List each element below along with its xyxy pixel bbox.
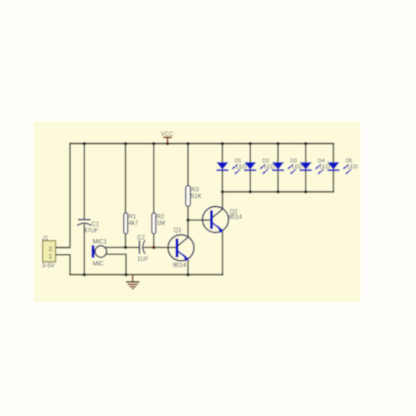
- svg-text:1: 1: [49, 253, 53, 260]
- svg-text:VCC: VCC: [161, 132, 174, 138]
- node D3 cathode: [276, 190, 279, 193]
- transistor Q2: [203, 207, 243, 233]
- capacitor C1: [77, 220, 100, 235]
- diode D3 LED: [272, 144, 302, 192]
- svg-text:1M: 1M: [157, 221, 165, 227]
- transistor Q1: [168, 228, 194, 269]
- junction dots: [83, 142, 308, 276]
- svg-text:9014: 9014: [173, 263, 187, 269]
- resistor R1: [124, 213, 139, 234]
- node R1 / mic / C2: [124, 246, 127, 249]
- wire R3 top lead: [187, 144, 189, 186]
- svg-text:Q1: Q1: [174, 228, 183, 234]
- wire C2 to Q1 base: [144, 246, 176, 248]
- node R2 / C2 / Q1 base: [152, 246, 155, 249]
- node D3 anode: [276, 142, 279, 145]
- connector J1: [42, 236, 70, 269]
- svg-text:D5: D5: [346, 158, 353, 164]
- wire LED cathode bus: [222, 191, 333, 193]
- node D2 cathode: [249, 190, 252, 193]
- node mic / ground bus: [124, 273, 127, 276]
- wire R3 bottom to Q2 base tee and Q1 collector: [187, 206, 189, 237]
- svg-text:51K: 51K: [191, 194, 202, 200]
- wire R2 leads: [153, 144, 155, 248]
- node Q1 emitter / ground bus: [186, 273, 189, 276]
- svg-text:MIC: MIC: [93, 262, 105, 268]
- svg-text:9014: 9014: [229, 215, 243, 221]
- svg-text:D4: D4: [318, 158, 325, 164]
- svg-text:LED: LED: [347, 165, 357, 171]
- wire Q1 emitter to ground bus: [187, 259, 189, 275]
- node D4 anode: [304, 142, 307, 145]
- node D1 cathode / Q2 collector: [221, 190, 224, 193]
- node C1 / ground bus: [83, 273, 86, 276]
- wire J1 pin1 to ground bus: [56, 255, 70, 275]
- wire ground bus: [70, 274, 223, 276]
- svg-text:J1: J1: [42, 236, 49, 242]
- diode D2 LED: [244, 144, 274, 192]
- diode D5 LED: [327, 144, 357, 192]
- svg-text:2: 2: [49, 246, 53, 253]
- resistor R2: [152, 213, 165, 234]
- VCC power symbol: [161, 132, 174, 144]
- resistor R3: [186, 186, 202, 207]
- wire left branch down to J1 pin2: [56, 144, 70, 248]
- svg-text:D1: D1: [235, 158, 242, 164]
- node D1 anode: [221, 142, 224, 145]
- svg-text:C1: C1: [92, 222, 100, 228]
- node R2/VCC bus: [152, 142, 155, 145]
- svg-text:C2: C2: [137, 235, 145, 241]
- node C1/VCC bus: [83, 142, 86, 145]
- capacitor C2: [137, 235, 149, 263]
- svg-text:MIC1: MIC1: [93, 239, 108, 245]
- svg-text:4k7: 4k7: [129, 221, 139, 227]
- node VCC stub: [166, 142, 169, 145]
- diode D1 LED: [216, 144, 246, 192]
- ground: [126, 275, 140, 289]
- svg-text:R2: R2: [157, 215, 165, 221]
- diode D4 LED: [300, 144, 330, 192]
- node R1/VCC bus: [124, 142, 127, 145]
- wire Q2 base: [188, 219, 211, 221]
- svg-text:R3: R3: [191, 188, 199, 194]
- svg-text:1UF: 1UF: [137, 257, 149, 263]
- wire C1 branch: [83, 144, 85, 275]
- wire Q2 emitter down to ground bus: [222, 231, 224, 275]
- svg-text:3-5V: 3-5V: [42, 263, 55, 269]
- svg-text:D2: D2: [262, 158, 269, 164]
- node D2 anode: [249, 142, 252, 145]
- wire R1 leads: [125, 144, 127, 248]
- wire mic lower output to ground: [105, 254, 127, 275]
- wire Q2 collector up to LED cathode bus: [222, 192, 224, 210]
- node R3 / Q2 base: [186, 219, 189, 222]
- microphone MIC1: [92, 239, 108, 267]
- svg-text:D3: D3: [290, 158, 297, 164]
- node D4 cathode: [304, 190, 307, 193]
- svg-text:47UF: 47UF: [84, 228, 99, 234]
- wire VCC top bus: [70, 143, 334, 145]
- svg-text:R1: R1: [129, 215, 137, 221]
- wire mic top output to C2: [105, 246, 140, 248]
- node R3/VCC bus: [186, 142, 189, 145]
